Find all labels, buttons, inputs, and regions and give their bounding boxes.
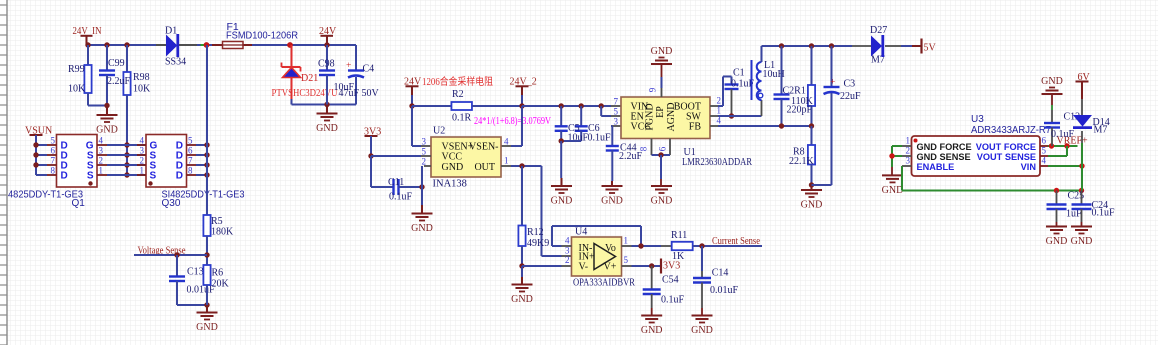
wire feedback pin4: [562, 245, 572, 247]
Q1 pin1 dot: [88, 181, 92, 185]
wire VOUT FORCE / VREF: [1040, 145, 1048, 147]
svg-text:GND: GND: [651, 46, 673, 57]
svg-text:PGND: PGND: [645, 103, 656, 130]
svg-text:ENABLE: ENABLE: [917, 162, 955, 172]
wire 24V_2 rail to U1: [522, 105, 611, 107]
svg-text:R5: R5: [211, 216, 223, 227]
svg-text:6: 6: [1042, 136, 1047, 146]
svg-text:S: S: [87, 171, 94, 182]
capacitor C11: [392, 179, 394, 195]
svg-text:2: 2: [906, 146, 911, 156]
power port 5V: [920, 39, 922, 54]
svg-text:5: 5: [614, 107, 619, 117]
wire U1 bottom pins to gnd: [651, 139, 653, 156]
svg-text:GND: GND: [882, 185, 904, 196]
svg-text:3: 3: [422, 137, 427, 147]
svg-text:8: 8: [188, 166, 193, 176]
wire Current Sense: [693, 245, 762, 247]
svg-text:C98: C98: [318, 59, 335, 70]
resistor R12: [521, 166, 523, 226]
svg-text:1206合金采样电阻: 1206合金采样电阻: [422, 75, 493, 88]
wire VIN pin4: [1040, 165, 1048, 167]
svg-text:FB: FB: [689, 122, 702, 133]
svg-text:47uF 50V: 47uF 50V: [339, 88, 380, 99]
svg-text:GND: GND: [1041, 76, 1063, 87]
pin 6 Q30 right: [187, 154, 197, 156]
svg-text:5V: 5V: [924, 43, 937, 54]
svg-text:R98: R98: [133, 72, 150, 83]
capacitor C1: [731, 77, 733, 85]
svg-text:GND: GND: [1046, 236, 1068, 247]
svg-text:0.1uF: 0.1uF: [1092, 208, 1116, 219]
svg-text:0.1uF: 0.1uF: [389, 192, 413, 203]
svg-text:+: +: [346, 61, 351, 71]
wire D21 bottom row: [291, 99, 293, 105]
svg-text:R11: R11: [671, 230, 687, 241]
ground: [421, 205, 423, 214]
diode D27: [852, 45, 871, 47]
op-amp U2 INA138: [431, 137, 501, 177]
svg-text:20K: 20K: [212, 279, 230, 290]
wire C11 to GND pin: [399, 186, 423, 188]
capacitor C99: [104, 42, 109, 47]
svg-text:10K: 10K: [68, 84, 86, 95]
ground: [641, 315, 662, 317]
svg-text:2: 2: [99, 156, 104, 166]
tvs diode D21 PTVSHC3D24VU: [291, 45, 293, 67]
svg-text:0.1R: 0.1R: [452, 113, 472, 124]
ground: [106, 106, 108, 116]
svg-text:VIN: VIN: [1021, 162, 1037, 172]
pin 6 Q1 left: [47, 154, 57, 156]
ground: [882, 174, 903, 176]
svg-text:GND: GND: [411, 223, 433, 234]
wire out pin1: [622, 245, 632, 247]
wire ENABLE to VIN rail: [902, 165, 912, 167]
wire VCC to C44: [611, 125, 621, 127]
pin 1 Q30 left: [137, 174, 146, 176]
capacitor C5: [560, 106, 562, 126]
svg-text:U3: U3: [971, 114, 984, 125]
capacitor C3 polarized: [831, 46, 833, 87]
svg-text:C4: C4: [363, 64, 375, 75]
pin 2 Q30 left: [137, 164, 146, 166]
svg-text:GND: GND: [641, 325, 663, 336]
svg-text:GND: GND: [691, 325, 713, 336]
pin 5 Q30 right: [187, 144, 197, 146]
ground: [811, 185, 813, 190]
svg-text:49K9: 49K9: [527, 238, 549, 249]
wire 24V_2 to U2 pin4: [521, 106, 523, 146]
svg-text:GND: GND: [551, 196, 573, 207]
pin 4 Q30 left: [137, 144, 146, 146]
svg-text:C99: C99: [108, 58, 125, 69]
wire VOUT SENSE: [1040, 155, 1048, 157]
svg-text:C54: C54: [662, 275, 679, 286]
svg-text:OUT: OUT: [474, 162, 495, 173]
wire BOOT to C1: [710, 105, 718, 107]
svg-text:U4: U4: [575, 227, 587, 238]
resistor R6: [203, 265, 210, 285]
wire pin9: [661, 64, 663, 77]
ground: [206, 305, 208, 313]
svg-text:4: 4: [565, 236, 570, 246]
op-amp U4 OPA333AIDBVR: [572, 237, 622, 276]
wire 3V3 to VCC: [370, 136, 372, 156]
svg-text:C14: C14: [712, 268, 729, 279]
svg-text:VCC: VCC: [442, 152, 463, 163]
svg-text:Q1: Q1: [72, 198, 86, 209]
capacitor C44: [606, 145, 619, 147]
capacitor C6: [580, 106, 582, 126]
wire V+ pin5: [622, 265, 632, 267]
sheet border ruler: [0, 0, 7, 345]
svg-text:AGND: AGND: [666, 103, 677, 132]
svg-text:24*1/(1+6.8)=3.0769V: 24*1/(1+6.8)=3.0769V: [474, 116, 552, 127]
svg-text:6: 6: [658, 146, 668, 151]
svg-text:2.2uF: 2.2uF: [107, 76, 131, 87]
svg-text:0.1uF: 0.1uF: [1051, 129, 1075, 140]
svg-text:R2: R2: [452, 89, 464, 100]
wire C5 C6 gnd: [561, 140, 581, 142]
svg-text:GND: GND: [196, 322, 218, 333]
svg-text:D21: D21: [301, 73, 318, 84]
capacitor C14: [701, 246, 703, 271]
svg-text:GND: GND: [442, 162, 464, 173]
wire to 5V: [901, 45, 912, 47]
wire FB row: [710, 125, 718, 127]
svg-text:1: 1: [99, 166, 104, 176]
resistor R98: [124, 42, 129, 47]
svg-text:V-: V-: [579, 262, 589, 273]
svg-text:4: 4: [1042, 156, 1047, 166]
capacitor C4 polarized: [355, 45, 357, 71]
wire VSUN to drains: [35, 135, 37, 175]
svg-text:U2: U2: [433, 126, 445, 137]
wire R99-C99 bottom: [88, 105, 107, 107]
svg-text:GND: GND: [601, 196, 623, 207]
capacitor C13: [176, 255, 178, 277]
svg-text:3: 3: [99, 146, 104, 156]
svg-text:3: 3: [906, 156, 911, 166]
svg-text:1: 1: [624, 236, 629, 246]
svg-text:5: 5: [422, 147, 427, 157]
svg-text:1: 1: [140, 166, 145, 176]
svg-text:7: 7: [614, 97, 619, 107]
wire C3 to R8 gnd: [812, 184, 832, 186]
svg-text:GND: GND: [1071, 236, 1093, 247]
svg-text:3: 3: [614, 117, 619, 127]
pin 2 Q1 right: [97, 164, 107, 166]
svg-text:D27: D27: [870, 25, 887, 36]
ground: [561, 178, 563, 186]
transistor Q1: [57, 135, 98, 188]
resistor R5: [203, 215, 210, 236]
svg-text:5: 5: [188, 136, 193, 146]
wire: 24V_IN rail: [88, 44, 157, 46]
svg-text:C1: C1: [733, 68, 745, 79]
svg-text:220pF: 220pF: [787, 105, 813, 116]
svg-text:6: 6: [188, 146, 193, 156]
svg-text:GND: GND: [651, 196, 673, 207]
wire Voltage Sense: [134, 254, 207, 256]
svg-text:2: 2: [140, 156, 145, 166]
ground: [692, 315, 713, 317]
svg-text:3: 3: [140, 146, 145, 156]
svg-text:2: 2: [422, 157, 427, 167]
svg-text:GND: GND: [511, 294, 533, 305]
svg-text:1: 1: [906, 136, 911, 146]
svg-text:Current Sense: Current Sense: [712, 236, 760, 247]
svg-text:22.1K: 22.1K: [789, 156, 815, 167]
resistor R11: [672, 242, 693, 250]
wire SW row: [710, 115, 718, 117]
svg-text:Vo: Vo: [605, 243, 616, 254]
capacitor C25: [1056, 191, 1058, 205]
wire U3 gnd pins: [902, 145, 912, 147]
svg-text:GND: GND: [96, 125, 118, 136]
svg-text:0.01uF: 0.01uF: [710, 285, 739, 296]
pin 5 Q1 left: [47, 144, 57, 146]
wire R98 to gate rows: [126, 95, 128, 175]
svg-text:8: 8: [639, 146, 649, 151]
svg-text:C2R1: C2R1: [783, 86, 806, 97]
svg-text:2.2uF: 2.2uF: [619, 151, 643, 162]
capacitor C12: [1051, 94, 1053, 105]
svg-text:R6: R6: [212, 268, 224, 279]
svg-text:6: 6: [51, 146, 56, 156]
svg-text:GND: GND: [316, 123, 338, 134]
svg-text:V+: V+: [604, 262, 617, 273]
pin 1 Q1 right: [97, 174, 107, 176]
power port 3V3: [660, 259, 662, 274]
svg-text:OPA333AIDBVR: OPA333AIDBVR: [573, 278, 635, 289]
pin 8 Q30 right: [187, 174, 197, 176]
ground: [1046, 226, 1067, 228]
svg-text:3V3: 3V3: [663, 261, 680, 272]
Q30 pin1 dot: [148, 181, 152, 185]
svg-text:3: 3: [565, 246, 570, 256]
svg-text:D1: D1: [165, 26, 177, 37]
svg-text:5: 5: [51, 136, 56, 146]
svg-text:D: D: [61, 171, 68, 182]
svg-text:INA138: INA138: [433, 179, 467, 190]
svg-text:2: 2: [717, 96, 722, 106]
ground: [651, 185, 672, 187]
svg-text:9: 9: [648, 87, 658, 92]
svg-text:7: 7: [188, 156, 193, 166]
wire 3V3 to C11: [370, 156, 372, 187]
wire V- row: [522, 265, 562, 267]
svg-text:EP: EP: [655, 106, 666, 118]
svg-text:7: 7: [51, 156, 56, 166]
pin 7 Q1 left: [47, 164, 57, 166]
capacitor C98: [326, 45, 328, 71]
svg-text:0.1uF: 0.1uF: [588, 133, 612, 144]
wire 24V to U2 pin3: [411, 106, 413, 146]
ground: [326, 105, 328, 114]
pin 3 Q30 left: [137, 154, 146, 156]
svg-text:D: D: [176, 171, 183, 182]
svg-text:0.1uF: 0.1uF: [661, 295, 685, 306]
transistor Q30: [146, 135, 187, 188]
svg-text:R12: R12: [527, 227, 544, 238]
svg-text:GND FORCE: GND FORCE: [917, 142, 972, 152]
svg-text:C13: C13: [187, 267, 204, 278]
svg-text:SS34: SS34: [165, 57, 186, 68]
regulator U1 LMR23630ADDAR: [621, 97, 710, 139]
wire Q30 drains to rail: [206, 45, 208, 215]
resistor R2: [412, 105, 452, 107]
svg-text:5: 5: [624, 255, 629, 265]
svg-text:M7: M7: [1094, 125, 1108, 136]
svg-text:VOUT FORCE: VOUT FORCE: [976, 142, 1036, 152]
capacitor C2: [781, 46, 783, 95]
diode D14: [1081, 82, 1083, 100]
svg-text:VSEN-: VSEN-: [469, 142, 498, 153]
svg-text:S: S: [150, 171, 157, 182]
svg-text:+: +: [830, 78, 835, 88]
svg-text:C3: C3: [844, 79, 856, 90]
resistor R8: [811, 126, 813, 145]
svg-text:R99: R99: [68, 64, 85, 75]
resistor R99: [87, 45, 89, 65]
wire L1 to rail: [761, 46, 763, 62]
svg-text:GND SENSE: GND SENSE: [917, 152, 971, 162]
svg-text:LMR23630ADDAR: LMR23630ADDAR: [682, 157, 752, 168]
svg-text:4: 4: [140, 136, 145, 146]
svg-text:22uF: 22uF: [840, 91, 861, 102]
svg-text:Q30: Q30: [162, 198, 181, 209]
wire C13 to R6 bottom: [177, 304, 207, 306]
svg-text:VOUT SENSE: VOUT SENSE: [977, 152, 1036, 162]
svg-text:180K: 180K: [211, 227, 234, 238]
inductor L1: [751, 60, 753, 100]
pin 4 Q1 right: [97, 144, 107, 146]
svg-text:2: 2: [565, 255, 570, 265]
pin 8 Q1 left: [47, 174, 57, 176]
pin 7 Q30 right: [187, 164, 197, 166]
resistor R1: [811, 46, 813, 85]
svg-text:ADR3433ARJZ-R7: ADR3433ARJZ-R7: [971, 125, 1051, 136]
svg-text:8: 8: [51, 166, 56, 176]
svg-text:4: 4: [99, 136, 104, 146]
ground: [1071, 226, 1092, 228]
svg-text:GND: GND: [801, 200, 823, 211]
svg-text:5: 5: [1042, 146, 1047, 156]
ground: [611, 181, 613, 186]
capacitor C54: [651, 266, 653, 290]
svg-text:4: 4: [504, 137, 509, 147]
pin 3 Q1 right: [97, 154, 107, 156]
ground: [521, 277, 523, 285]
capacitor C24: [1081, 191, 1083, 205]
wire EN: [599, 103, 604, 108]
svg-text:FSMD100-1206R: FSMD100-1206R: [226, 31, 298, 42]
svg-text:1: 1: [504, 156, 509, 166]
U2 OUT wire: [501, 165, 511, 167]
svg-text:10K: 10K: [133, 84, 151, 95]
